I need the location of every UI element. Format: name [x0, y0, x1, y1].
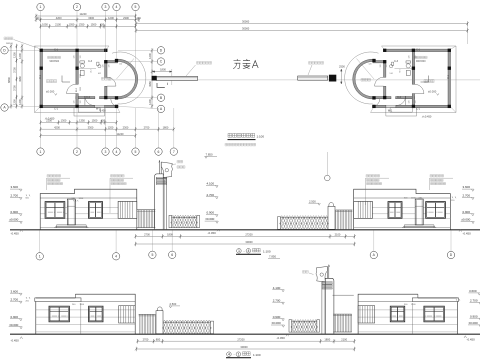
svg-text:6840: 6840: [7, 77, 11, 83]
svg-text:C-2: C-2: [397, 96, 402, 99]
svg-text:11240: 11240: [116, 132, 124, 136]
grid bubble A left: [1, 104, 8, 111]
svg-text:3.600: 3.600: [469, 289, 477, 293]
svg-text:C-1: C-1: [416, 108, 421, 111]
svg-text:2700: 2700: [143, 337, 149, 341]
svg-text:2100: 2100: [341, 337, 347, 341]
left gatehouse plan geometry: [35, 46, 146, 116]
svg-text:4.100: 4.100: [207, 182, 215, 186]
svg-text:C-1: C-1: [39, 74, 42, 79]
svg-text:1300: 1300: [61, 119, 67, 123]
svg-text:C-1: C-1: [416, 49, 421, 52]
svg-text:1250: 1250: [13, 52, 17, 58]
svg-text:120: 120: [102, 65, 104, 68]
svg-text:1500: 1500: [91, 23, 97, 27]
svg-text:120: 120: [369, 64, 372, 66]
svg-text:0.900: 0.900: [207, 211, 215, 215]
svg-text:1800: 1800: [163, 125, 169, 129]
svg-text:4360: 4360: [148, 81, 152, 87]
svg-text:0.900: 0.900: [11, 210, 19, 214]
row1 facade note left A: [47, 175, 61, 177]
svg-text:-0.450: -0.450: [99, 111, 106, 113]
row1 facade note right A: [366, 175, 380, 177]
svg-text:1: 1: [39, 255, 41, 259]
svg-text:-: -: [234, 352, 235, 356]
grid bubble D right of plan: [157, 47, 164, 54]
svg-text:120: 120: [119, 64, 122, 66]
svg-text:C-2: C-2: [86, 96, 91, 99]
svg-text:2: 2: [76, 150, 78, 154]
grid axis drop lines: [40, 11, 42, 49]
svg-text:0.900: 0.900: [11, 315, 19, 319]
svg-text:30000: 30000: [242, 26, 250, 30]
svg-text:1500: 1500: [92, 119, 98, 123]
bottom dim chain total: [41, 135, 136, 137]
svg-text:3: 3: [105, 5, 107, 9]
top dim chain sub segments: [41, 25, 136, 27]
svg-text:120: 120: [415, 56, 417, 59]
svg-text:2000: 2000: [80, 87, 82, 91]
plan subtitle: [225, 143, 256, 146]
svg-text:2.700: 2.700: [463, 194, 471, 198]
svg-text:11240: 11240: [79, 12, 87, 16]
svg-text:5: 5: [151, 253, 153, 257]
svg-text:2.700: 2.700: [11, 194, 19, 198]
grid bubble 3: [102, 3, 109, 10]
svg-text:1:100: 1:100: [253, 353, 261, 357]
svg-text:120: 120: [80, 56, 82, 59]
svg-text:1200: 1200: [18, 53, 22, 59]
svg-text:1:100: 1:100: [263, 250, 271, 254]
svg-text:±0.000: ±0.000: [461, 218, 470, 222]
bottom dim chain sub segments left plan: [41, 121, 117, 123]
svg-text:120: 120: [74, 56, 76, 59]
svg-text:1200: 1200: [148, 53, 152, 59]
row2 dim chain 1: [138, 340, 355, 342]
svg-text:900X600: 900X600: [416, 60, 426, 63]
row1 bubbles A D: [373, 231, 375, 252]
svg-text:-: -: [244, 249, 245, 253]
svg-text:1800: 1800: [167, 233, 173, 237]
svg-text:2700: 2700: [144, 125, 150, 129]
svg-text:800: 800: [156, 337, 161, 341]
row1 emblem labels: [177, 160, 183, 163]
row1 dim chain 1: [136, 235, 355, 237]
svg-text:30000: 30000: [242, 19, 250, 23]
svg-text:2.700: 2.700: [273, 298, 281, 302]
svg-text:450: 450: [100, 23, 105, 27]
right plan partition note: [414, 56, 427, 58]
svg-text:5: 5: [135, 5, 137, 9]
grid bubble C right of plan: [157, 58, 164, 65]
grid bubble 5: [132, 3, 139, 10]
svg-text:±0.000: ±0.000: [9, 323, 18, 327]
row1 corner dim marks: [26, 195, 30, 197]
svg-text:1050: 1050: [69, 23, 75, 27]
svg-text:5: 5: [135, 150, 137, 154]
svg-text:1200: 1200: [108, 125, 114, 129]
svg-text:1200: 1200: [148, 99, 152, 105]
svg-text:120: 120: [80, 101, 82, 104]
svg-text:120: 120: [109, 65, 111, 68]
row2 link beam over roller: [333, 294, 354, 296]
svg-text:3750: 3750: [13, 85, 17, 91]
gate offset dim 1800: [153, 71, 172, 73]
svg-text:C-3: C-3: [88, 60, 93, 63]
svg-text:3.600: 3.600: [11, 185, 19, 189]
svg-text:4200: 4200: [56, 16, 62, 20]
svg-text:120: 120: [409, 56, 411, 59]
top dim chain total 11240: [36, 15, 136, 17]
svg-text:2.500: 2.500: [170, 302, 177, 306]
right-side axis chain of left plan: [151, 50, 153, 106]
svg-text:2.700: 2.700: [470, 299, 478, 303]
row2 ground line: [10, 333, 480, 335]
row2 emblem label: [303, 271, 309, 274]
svg-text:2100: 2100: [335, 233, 341, 237]
svg-text:3300: 3300: [88, 125, 94, 129]
right plan room label rest: [424, 80, 434, 83]
row2 gate right group (mirror of row1 left): [289, 265, 352, 334]
svg-text:4360: 4360: [18, 76, 22, 82]
row1 right corner dim marks: [452, 197, 456, 199]
svg-text:2300: 2300: [123, 125, 129, 129]
svg-text:-0.450: -0.450: [208, 231, 217, 235]
row2 right building (mirrored): [358, 294, 458, 334]
row1 ground line: [10, 229, 480, 231]
svg-text:27200: 27200: [245, 233, 253, 237]
svg-text:±0.000: ±0.000: [469, 321, 478, 325]
svg-text:-0.450: -0.450: [424, 115, 432, 119]
row1 gate right group: [278, 202, 353, 229]
svg-text:-0.450: -0.450: [463, 231, 472, 235]
row1 bubbles 5 6: [151, 231, 153, 252]
gate guide bracket: [157, 83, 165, 87]
svg-text:7.850: 7.850: [269, 255, 276, 259]
svg-text:4: 4: [116, 150, 118, 154]
overall dim line 30000 upper: [136, 23, 468, 25]
auto gate label left: [197, 62, 212, 65]
svg-text:C-1: C-1: [54, 108, 59, 111]
svg-text:1:100: 1:100: [257, 135, 265, 139]
svg-text:-0.450: -0.450: [47, 117, 55, 121]
svg-text:6: 6: [158, 150, 160, 154]
svg-text:-0.450: -0.450: [11, 231, 20, 235]
row2 right corner dim marks: [456, 299, 460, 301]
svg-text:1: 1: [40, 150, 42, 154]
rain pipe leader note: [4, 37, 13, 40]
svg-text:W-1: W-1: [388, 110, 393, 113]
row1 facade note right B: [430, 175, 444, 177]
svg-text:7.850: 7.850: [206, 153, 213, 157]
svg-text:±0.000: ±0.000: [205, 217, 214, 221]
row1 right building (mirrored): [354, 189, 451, 229]
auto gate label right: [309, 62, 324, 65]
gate motor box left: [152, 76, 157, 81]
grid bubble D left: [1, 47, 8, 54]
svg-text:120: 120: [74, 101, 76, 104]
grid bubble B right of plan: [157, 94, 164, 101]
svg-text:±0.000: ±0.000: [272, 321, 281, 325]
top dim chain axis segments: [36, 19, 139, 21]
svg-text:C-3: C-3: [394, 60, 399, 63]
svg-text:±0.000: ±0.000: [9, 218, 18, 222]
svg-text:3750: 3750: [13, 67, 17, 73]
right gatehouse plan geometry (mirrored): [345, 46, 456, 116]
grid bubble A right of plan: [157, 105, 164, 112]
bottom grid bubbles: [40, 108, 42, 148]
svg-text:2.700: 2.700: [207, 193, 215, 197]
right plan room label duty: [361, 78, 370, 81]
svg-text:6: 6: [171, 253, 173, 257]
row2 corner dim marks left: [26, 297, 30, 299]
svg-text:4: 4: [248, 249, 250, 253]
svg-text:1: 1: [238, 352, 240, 356]
svg-text:120: 120: [415, 101, 417, 104]
svg-text:2700: 2700: [144, 233, 150, 237]
svg-text:1: 1: [40, 5, 42, 9]
row1 left building: [40, 189, 137, 229]
bottom dim chain axis segments left plan: [41, 128, 174, 130]
svg-text:4200: 4200: [54, 125, 60, 129]
row1 gate left group: [137, 160, 200, 229]
gate rail left plan: [157, 76, 198, 80]
svg-text:4: 4: [228, 352, 230, 356]
svg-text:C-1: C-1: [447, 74, 450, 79]
gate rail right plan: [298, 76, 328, 80]
svg-text:0.900: 0.900: [463, 210, 471, 214]
svg-text:3: 3: [105, 150, 107, 154]
svg-text:1800: 1800: [160, 68, 166, 72]
overall dim line 30000 lower: [136, 30, 468, 32]
svg-text:-0.450: -0.450: [467, 338, 476, 342]
svg-text:450: 450: [101, 119, 106, 123]
left dim chain outer 6840: [10, 46, 12, 106]
svg-text:2300: 2300: [123, 16, 129, 20]
left dim chain middle: [16, 46, 18, 106]
svg-text:27200: 27200: [237, 337, 245, 341]
svg-text:3300: 3300: [88, 16, 94, 20]
svg-text:2.500: 2.500: [309, 199, 316, 203]
svg-text:1200: 1200: [18, 99, 22, 105]
row1 bubbles 1 4: [39, 231, 41, 253]
svg-text:120: 120: [136, 16, 141, 20]
svg-text:1250: 1250: [13, 99, 17, 105]
svg-text:120: 120: [36, 17, 41, 20]
svg-text:1200: 1200: [108, 16, 114, 20]
grid bubble 2: [73, 3, 80, 10]
svg-text:30000: 30000: [240, 345, 248, 349]
svg-text:30000: 30000: [245, 240, 253, 244]
svg-text:±0.000: ±0.000: [46, 90, 55, 94]
row1 dim chain 2: [136, 243, 355, 245]
svg-text:2: 2: [76, 5, 78, 9]
svg-text:±0.000: ±0.000: [428, 90, 437, 94]
plan room label rest: [47, 80, 57, 83]
svg-text:DN100: DN100: [6, 43, 14, 45]
svg-text:120: 120: [386, 65, 388, 68]
grid bubble 4: [113, 3, 120, 10]
svg-text:0.900: 0.900: [470, 314, 478, 318]
svg-text:2500: 2500: [339, 65, 345, 69]
svg-text:1500: 1500: [80, 74, 82, 78]
svg-text:3.600: 3.600: [11, 289, 19, 293]
detail leader circle: [326, 152, 328, 175]
row2 gate left group (mirror of row1 right): [139, 307, 214, 334]
svg-text:-0.450: -0.450: [277, 336, 286, 340]
svg-text:4: 4: [116, 5, 118, 9]
svg-text:120: 120: [409, 101, 411, 104]
svg-text:2.700: 2.700: [11, 297, 19, 301]
svg-text:-0.450: -0.450: [11, 339, 20, 343]
svg-text:0.900: 0.900: [273, 315, 281, 319]
svg-text:4.100: 4.100: [273, 286, 281, 290]
svg-text:900X600: 900X600: [50, 60, 60, 63]
svg-text:3.600: 3.600: [463, 185, 471, 189]
svg-text:C-1: C-1: [54, 49, 59, 52]
svg-text:1: 1: [238, 249, 240, 253]
row1 facade note left B: [111, 175, 125, 177]
grid bubble 1: [37, 3, 44, 10]
row2 dim chain 2: [136, 348, 354, 350]
svg-text:4: 4: [115, 255, 117, 259]
road centre line: [108, 79, 480, 81]
svg-text:1350: 1350: [79, 23, 85, 27]
svg-text:2100: 2100: [55, 23, 61, 27]
svg-text:1350: 1350: [79, 119, 85, 123]
svg-text:1050: 1050: [42, 23, 48, 27]
plan room label duty: [102, 77, 111, 80]
svg-text:1800: 1800: [324, 337, 330, 341]
scheme A title: [233, 59, 240, 69]
svg-text:120: 120: [380, 65, 382, 68]
plan partition note: [48, 56, 61, 58]
plan title: [228, 133, 255, 137]
left dim chain inner: [21, 46, 23, 106]
gate motor box: [329, 75, 336, 82]
row2 left building: [35, 294, 135, 334]
svg-text:7: 7: [173, 150, 175, 154]
